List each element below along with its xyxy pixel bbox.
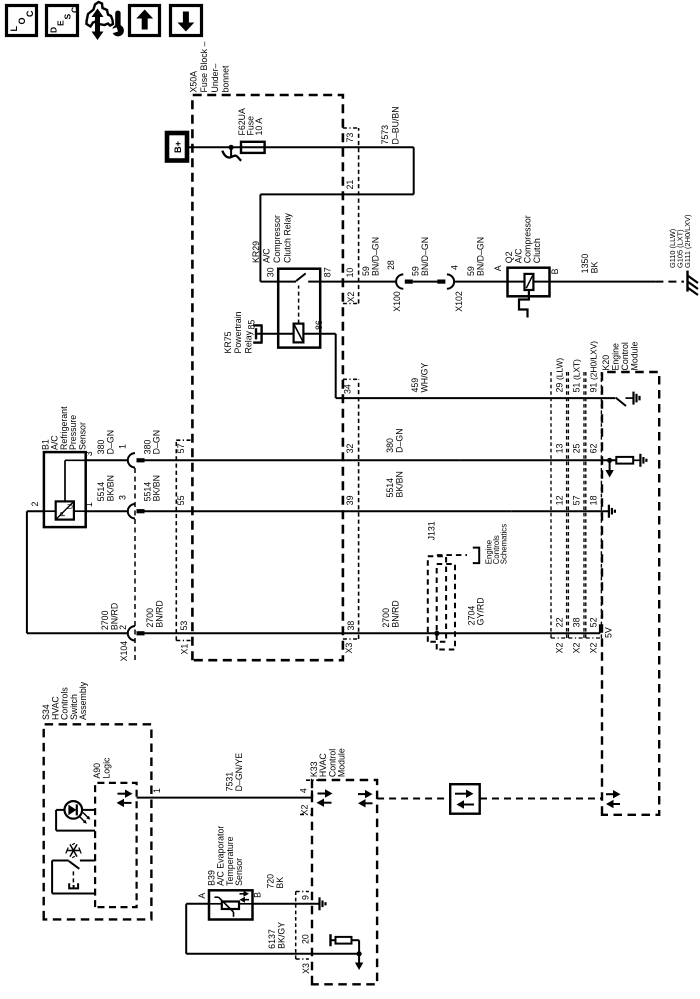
svg-text:BK/BN: BK/BN [152,475,162,501]
button arrow-down (left arrow in landscape) [171,6,202,36]
svg-text:Module: Module [630,342,640,371]
wire KR75 contact to KR29 coil [256,333,294,335]
svg-text:Under–: Under– [210,64,220,93]
svg-text:Clutch: Clutch [532,238,542,263]
svg-text:X102: X102 [454,291,464,312]
A90 serial data arrows [124,802,132,804]
svg-text:bonnet: bonnet [221,65,231,92]
wire 59 BN/D-GN (3) [454,281,507,283]
svg-text:BN/D–GN: BN/D–GN [420,237,430,276]
svg-text:57: 57 [572,495,582,505]
svg-text:G111 (2H0/LXV): G111 (2H0/LXV) [683,214,692,268]
wire 2 jog from B1 to 2700 column [27,510,44,512]
svg-text:D–GN: D–GN [152,430,162,454]
svg-text:62: 62 [589,444,599,454]
svg-text:53: 53 [179,621,189,631]
wire B+ feed down to fuse [187,146,241,148]
splice J131 (double dashed box) [428,556,446,642]
svg-text:18: 18 [589,495,599,505]
svg-text:E: E [56,20,66,26]
wire Q2 coil to pin B [533,281,549,283]
svg-text:B: B [253,892,263,898]
wire 2700 BN/RD column [27,632,128,634]
button LOC [7,6,37,36]
svg-text:D: D [49,27,59,33]
svg-text:O: O [17,17,27,24]
compressor clutch Q2 (box) [508,268,550,297]
ECM internal: 5V reference terminal [599,624,601,633]
svg-text:Relay: Relay [243,330,253,353]
wire 7573 up through pin 21 into fuse block [260,193,413,195]
snowflake symbol (A/C) [66,843,81,858]
svg-text:28: 28 [386,260,396,270]
svg-text:D–GN: D–GN [394,428,404,452]
svg-text:P: P [58,512,67,517]
ECM internal: 380 branch arrow [460,459,616,461]
svg-text:Engine: Engine [611,343,621,370]
svg-text:Sensor: Sensor [77,422,87,450]
relay KR75 Powertrain Relay (contact shown elsewhere, bracket) [260,325,262,342]
svg-text:9: 9 [301,895,311,900]
svg-text:55: 55 [176,495,186,505]
svg-text:2: 2 [30,502,40,507]
svg-text:K20: K20 [601,355,611,371]
indicator LED loop wires [56,809,65,811]
B39 serial arrows [245,899,249,901]
wire 5514 BK/BN (2) [145,510,512,512]
svg-text:X2: X2 [346,292,356,303]
J131 junction node [434,631,439,636]
svg-text:X2: X2 [555,642,565,653]
B1 transducer symbol P/U [56,501,74,519]
wire 5514 BK/BN from pin 1 [86,510,128,512]
ground G110/G105/G111 (chassis ground) [686,271,688,292]
KR29 contact (open switch) [296,273,306,281]
svg-text:BN/D–GN: BN/D–GN [370,237,380,276]
svg-text:Logic: Logic [101,757,111,779]
svg-text:BK/BN: BK/BN [105,475,115,501]
serial data node box (other modules) [450,784,480,814]
splice branch squiggle (other circuits) [230,147,232,157]
svg-text:(LXT): (LXT) [572,359,582,380]
svg-text:Powertrain: Powertrain [233,311,243,353]
svg-text:WH/GY: WH/GY [419,363,429,393]
svg-text:1: 1 [118,444,128,449]
wire 380 D-GN (2) [145,459,460,461]
wire 1350 dashed segment to ground [655,281,684,283]
svg-text:38: 38 [346,621,356,631]
in-line connector (380 row) [128,453,135,467]
svg-text:39: 39 [345,495,355,505]
svg-text:(2H0/LXV): (2H0/LXV) [589,341,599,380]
wire jog from coil to 459 column [335,334,337,398]
svg-text:B: B [550,268,560,274]
K33 internal: resistor [336,937,352,944]
svg-text:10: 10 [345,268,355,278]
svg-text:Clutch Relay: Clutch Relay [283,213,293,263]
KR29 contact output stub to pin 87 [308,281,320,283]
A/C switch blade [69,861,80,869]
svg-text:34: 34 [342,384,352,394]
svg-text:20: 20 [301,934,311,944]
connector X2 strip caps (K33) [306,779,319,781]
svg-text:U: U [65,504,74,509]
splice node on B+ feed [229,145,234,150]
svg-text:13: 13 [555,444,565,454]
svg-text:X2: X2 [572,642,582,653]
in-line connector (5514 row) [128,504,135,518]
svg-text:1: 1 [84,502,94,507]
svg-text:S: S [63,14,73,20]
svg-text:29: 29 [555,383,565,393]
wire jog to relay KR29 pin 30 [259,194,261,281]
svg-text:30: 30 [265,267,275,277]
KR29 coil (rect with diagonal) [294,324,304,343]
svg-text:Module: Module [337,748,347,777]
svg-text:BK: BK [275,877,285,889]
serial data dashed bus K33 to ECM [377,798,450,800]
assembly S34 HVAC Controls Switch Assembly (dashed box) [44,724,152,919]
svg-text:C: C [70,7,80,13]
ECM internal: 380 ground [633,459,640,461]
icon vehicle-service (outline, double arrow, wrench) [87,2,114,27]
ECM connector bands X2 (LLW / LXT / 2H0-LXV) [550,372,552,638]
svg-text:X104: X104 [119,641,129,662]
KR29 coil-contact dashed link [298,286,300,324]
module K33 HVAC Control Module (dashed box) [312,780,377,984]
connector strip X1 (fuse block top edge) [175,440,177,640]
svg-text:51: 51 [572,383,582,393]
fuse block X50A Under-bonnet (dashed box) [192,95,343,660]
svg-text:KR29: KR29 [251,241,261,263]
svg-text:12: 12 [555,495,565,505]
svg-text:A: A [493,265,503,271]
Q2 clutch mechanical link [519,290,529,318]
wire from fuse through pin 73 down to U-turn [343,146,414,148]
svg-text:X3: X3 [344,643,354,654]
svg-text:38: 38 [572,617,582,627]
K33 internal: signal arrow [358,954,360,963]
K33 internal: 6137 junction and pull-up [186,953,359,955]
svg-text:X2: X2 [589,642,599,653]
svg-text:L: L [9,26,19,32]
svg-text:BN/RD: BN/RD [390,600,400,627]
svg-text:D–BU/BN: D–BU/BN [391,106,401,144]
svg-text:73: 73 [345,133,355,143]
svg-text:91: 91 [589,383,599,393]
svg-text:5V: 5V [603,627,613,638]
A/C switch wires [52,860,69,862]
module K20 Engine Control Module (dashed box) [602,372,659,815]
KR29 coil output wire (pin 86) [303,333,335,335]
svg-text:B+: B+ [173,141,183,153]
svg-text:57: 57 [176,444,186,454]
serial data wire 7531 D-GN/YE from A90 [137,797,312,799]
svg-text:J131: J131 [427,521,437,540]
svg-text:4: 4 [449,265,459,270]
sensor B39 A/C Evaporator Temperature Sensor (box) [209,890,253,919]
in-line connector X102 [437,279,445,283]
svg-text:A: A [197,893,207,899]
wire U-turn bottom (7573 circuit) [413,147,415,194]
svg-text:4: 4 [299,788,309,793]
K33 internal: 720 ground [253,903,320,905]
wire 2700 BN/RD (2) [145,632,600,634]
svg-text:1: 1 [152,788,162,793]
svg-text:BK/GY: BK/GY [276,922,286,949]
Q2 coil [508,281,525,283]
svg-text:Sensor: Sensor [234,858,244,886]
wire 59 BN/D-GN (2) [413,281,439,283]
wire 59 BN/D-GN from relay pin 87 [320,281,396,283]
wire 1350 BK [550,281,656,283]
svg-text:87: 87 [322,267,332,277]
svg-text:22: 22 [555,617,565,627]
button DESC [47,6,78,36]
serial data arrows (ECM entry) [614,803,621,805]
svg-text:52: 52 [589,617,599,627]
cross-reference dashed stub [437,554,467,556]
svg-text:X100: X100 [392,291,402,312]
wire end tick at K33 pin 4 [311,790,313,797]
connector X3 strip (K33) [295,892,297,960]
K33 internal: supply T [331,939,336,941]
connector X104 dashed gang line [134,467,136,660]
svg-text:Control: Control [620,342,630,370]
svg-text:X2: X2 [299,804,309,815]
svg-text:Assembly: Assembly [78,681,88,720]
svg-text:3: 3 [118,495,128,500]
sensor B1 A/C Refrigerant Pressure Sensor (box) [44,452,86,527]
svg-text:10 A: 10 A [254,118,264,136]
logic module A90 (dashed box) [95,783,137,907]
svg-text:Fuse Block –: Fuse Block – [199,42,209,93]
svg-text:D–GN: D–GN [105,430,115,454]
connector strip X3 (fuse block bottom, middle section) [358,379,360,639]
A/C switch dashed link [72,871,74,883]
B1 internal stub to pin 3 [64,460,66,501]
svg-text:GY/RD: GY/RD [476,597,486,625]
ECM internal: 459 open switch to ground [616,398,627,407]
relay KR29 A/C Compressor Clutch Relay (box) [278,269,320,348]
svg-text:X50A: X50A [189,71,199,93]
svg-text:X3: X3 [301,963,311,974]
ECM internal: 380 pull-up resistor [616,457,633,464]
KR29 contact feed (pin 30) [260,281,296,283]
B39 thermistor [209,903,222,905]
in-line connector X104 (2700 row) [128,626,135,640]
LED light rays [80,817,86,823]
A/C switch detent contact [69,883,78,888]
svg-text:BN/D–GN: BN/D–GN [475,237,485,276]
svg-text:21: 21 [345,180,355,190]
serial data arrows (K33 exit) [366,802,373,804]
KR75 contact bar [255,328,257,339]
fuse F62UA 10 A [241,142,265,153]
serial data arrows (K33 entry) [324,802,332,804]
svg-text:32: 32 [345,444,355,454]
svg-text:3: 3 [84,451,94,456]
wire 6137 BK/GY jog from pin A [186,903,209,905]
svg-text:BN/RD: BN/RD [154,600,164,627]
svg-text:X1: X1 [179,644,189,655]
svg-text:C: C [25,10,35,17]
svg-text:BK/BN: BK/BN [394,471,404,497]
battery terminal B+ [167,133,187,161]
svg-text:25: 25 [572,444,582,454]
svg-text:Compressor: Compressor [272,215,282,263]
in-line connector X100 [396,274,403,288]
wire 380 D-GN from pin 3 [86,459,128,461]
wire 459 WH/GY down to ECM [336,397,615,399]
svg-text:A/C: A/C [262,248,272,263]
svg-text:D–GN/YE: D–GN/YE [234,753,244,792]
B1 internal stub to pin 2 [44,510,56,512]
button arrow-up (right arrow in landscape) [130,6,160,36]
svg-text:86: 86 [314,320,324,330]
svg-text:(LLW): (LLW) [555,358,565,380]
svg-text:7573: 7573 [380,125,390,145]
svg-text:2: 2 [118,625,128,630]
indicator LED (circle diode) [65,801,83,819]
svg-text:Schematics: Schematics [500,524,509,564]
connector strip X2 (fuse block bottom, right section) [358,128,360,304]
B1 internal stub to pin 1 [74,510,86,512]
ECM internal: 5514 ground [511,510,609,512]
svg-text:KR75: KR75 [223,331,233,353]
cross-reference bracket [473,548,479,564]
svg-text:BK: BK [589,261,599,273]
